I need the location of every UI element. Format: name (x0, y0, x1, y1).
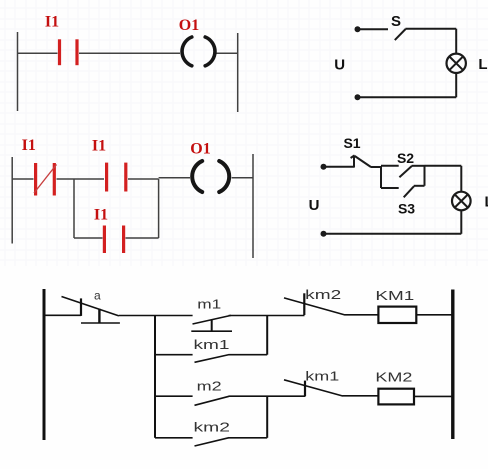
lamp L circle (447, 54, 466, 73)
km1 blade (195, 355, 230, 363)
junction vertical right (158, 179, 160, 238)
wire (217, 52, 238, 54)
wire (79, 52, 180, 54)
lamp X (449, 57, 463, 71)
branch wire (126, 237, 159, 239)
coil O1 arcs (192, 161, 229, 192)
wire (405, 28, 456, 30)
contact a post (80, 298, 82, 316)
contact I1 (NC) bars (36, 163, 55, 196)
S3 blade (404, 186, 414, 197)
split left vertical (380, 167, 382, 189)
wire coil to rail (232, 177, 253, 179)
NC slash (34, 165, 57, 194)
contact I1 (NO) lower bars (104, 226, 123, 254)
junction vertical left (73, 179, 75, 238)
m1 bar (191, 330, 232, 332)
rung1 wire (229, 315, 305, 317)
rung1 wire from rail (44, 314, 81, 316)
svg-text:U: U (334, 57, 345, 74)
km1 branch wire (155, 354, 193, 356)
wire (324, 166, 355, 168)
terminal dot bottom (355, 94, 361, 100)
switch S blade (395, 29, 406, 40)
split right vertical (424, 166, 426, 186)
terminal dot top (321, 164, 327, 170)
svg-text:I1: I1 (45, 14, 59, 31)
right power rail (237, 33, 239, 112)
m2 blade (195, 396, 230, 405)
svg-text:L: L (485, 194, 488, 211)
svg-text:S1: S1 (343, 135, 360, 151)
S2 wire (412, 165, 425, 167)
contact I1 (NO) upper bars (107, 163, 126, 192)
wire (57, 178, 105, 180)
m1 blade (193, 315, 232, 324)
km1 blade rung2 (284, 380, 343, 396)
svg-text:a: a (94, 289, 101, 303)
wire lamp down (460, 210, 462, 234)
coil O1 arcs (182, 37, 215, 66)
wire (18, 52, 58, 54)
wire down (460, 166, 462, 192)
right power rail (252, 154, 254, 258)
inner left vertical (154, 316, 156, 438)
lamp X (455, 195, 468, 208)
coil KM1 (378, 307, 416, 323)
svg-text:I1: I1 (92, 138, 106, 155)
svg-text:S: S (391, 13, 401, 30)
S2 blade (399, 166, 411, 177)
faint grid background (0, 0, 488, 266)
coil KM2 (378, 389, 414, 405)
wire down to lamp (455, 29, 457, 54)
svg-text:km1: km1 (305, 370, 339, 384)
km2 branch wire (155, 437, 193, 439)
wire (128, 178, 159, 180)
bottom wire (358, 96, 457, 98)
rung2 wire to coil (343, 395, 379, 397)
S1 contact post (353, 156, 355, 168)
S1 blade (355, 156, 371, 167)
inner right vertical lower (266, 396, 268, 438)
wire to lamp (425, 165, 462, 167)
svg-text:m2: m2 (197, 379, 222, 393)
svg-text:O1: O1 (179, 17, 199, 34)
rung1 wire (119, 315, 193, 317)
wire to coil (159, 177, 190, 179)
svg-text:O1: O1 (190, 141, 210, 158)
svg-text:I1: I1 (94, 207, 108, 224)
m1 stem (211, 320, 213, 331)
km2 post (303, 293, 305, 315)
contact a stem (98, 309, 100, 323)
wire (358, 28, 389, 30)
left power rail (17, 32, 19, 111)
svg-text:I1: I1 (22, 137, 36, 154)
wire lamp to bottom (455, 73, 457, 97)
branch wire (74, 237, 103, 239)
left rail (43, 289, 46, 440)
svg-text:km2: km2 (194, 421, 231, 435)
S2 branch wire (381, 165, 399, 167)
km2 blade (195, 438, 230, 446)
svg-text:S3: S3 (398, 201, 415, 217)
contact a blade (62, 297, 119, 316)
right rail (451, 290, 454, 440)
wire (12, 178, 33, 180)
svg-text:KM1: KM1 (375, 288, 414, 303)
svg-text:km2: km2 (305, 288, 341, 302)
rung2 wire (229, 395, 306, 397)
km2 blade (284, 298, 345, 315)
S1 hook (351, 155, 355, 158)
contact I1 (NO) bars (60, 39, 78, 65)
rung2 wire (155, 395, 193, 397)
svg-text:S2: S2 (397, 150, 414, 166)
wire coil to rail (414, 395, 453, 397)
terminal dot top (355, 26, 361, 32)
terminal dot bottom (321, 231, 327, 237)
svg-text:KM2: KM2 (375, 370, 412, 385)
svg-text:U: U (309, 197, 320, 214)
inner right vertical upper (266, 316, 268, 355)
svg-text:m1: m1 (197, 298, 221, 312)
svg-text:L: L (478, 56, 487, 73)
km2 branch wire right (229, 437, 268, 439)
lamp circle (452, 192, 471, 211)
svg-text:km1: km1 (194, 338, 230, 352)
left power rail (11, 157, 13, 244)
S3 wire (414, 185, 425, 187)
S3 branch wire (381, 187, 399, 189)
bottom wire (324, 233, 462, 235)
km1 branch wire right (229, 354, 268, 356)
wire (371, 166, 382, 168)
wire coil to rail (416, 314, 453, 316)
contact a bar (81, 322, 120, 324)
km1 post (304, 381, 306, 396)
rung1 wire to coil (345, 314, 379, 316)
